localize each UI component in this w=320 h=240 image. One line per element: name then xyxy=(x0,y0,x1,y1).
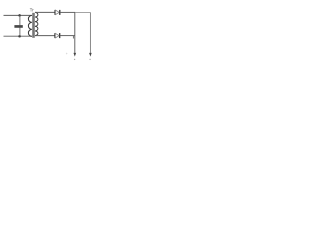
transformer Tr primary winding xyxy=(28,15,32,36)
wire secondary bottom to diode VD2 xyxy=(35,35,55,37)
transformer Tr core line left xyxy=(32,13,34,38)
wire vertical bus 2 xyxy=(89,12,91,53)
capacitor C1 plate top xyxy=(14,25,22,27)
node junction bottom xyxy=(18,35,21,38)
wire vertical bus 1 xyxy=(74,12,76,53)
svg-text:+: + xyxy=(66,52,68,56)
transformer Tr secondary winding xyxy=(35,12,38,35)
node junction bus1 bottom wire xyxy=(72,36,74,39)
diode VD2 triangle diagonals xyxy=(55,33,59,38)
terminal dot below arrow 1 xyxy=(74,59,75,60)
node junction top xyxy=(18,14,21,17)
transformer Tr core line right xyxy=(33,13,35,38)
diode VD1 triangle xyxy=(54,10,56,15)
output arrow 1 head xyxy=(74,53,77,57)
wire capacitor branch upper xyxy=(19,15,21,25)
wire input bottom xyxy=(4,35,32,37)
output arrow 2 head xyxy=(89,53,92,57)
terminal dot below arrow 2 xyxy=(89,59,90,60)
wire VD2 to vertical bus xyxy=(60,35,75,37)
svg-text:Tr: Tr xyxy=(30,8,34,13)
diode VD1 cathode bar xyxy=(59,10,61,15)
wire input top xyxy=(4,14,32,16)
capacitor C1 plate bottom xyxy=(14,26,22,28)
diode VD2 cathode bar xyxy=(59,33,61,38)
wire capacitor branch lower xyxy=(19,28,21,37)
diode VD1 triangle diagonals xyxy=(55,10,59,15)
diode VD2 triangle xyxy=(54,33,56,38)
wire VD1 to top right corner xyxy=(60,11,75,13)
wire secondary top to diode VD1 xyxy=(35,11,55,13)
wire top right light segment xyxy=(75,11,90,13)
